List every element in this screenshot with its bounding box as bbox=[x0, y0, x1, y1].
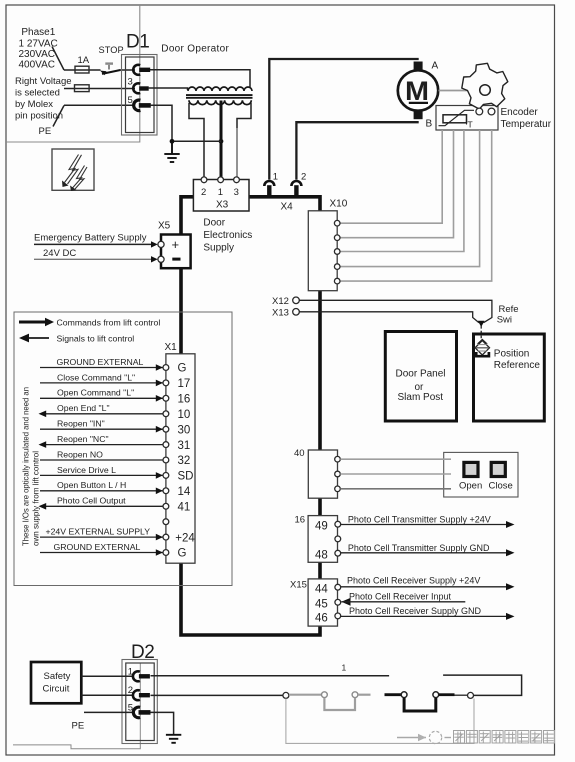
svg-text:by Molex: by Molex bbox=[15, 99, 53, 110]
connector X10 bbox=[308, 199, 347, 291]
svg-text:48: 48 bbox=[315, 549, 328, 561]
svg-text:44: 44 bbox=[315, 583, 328, 595]
lightning hazard box bbox=[52, 149, 94, 191]
wire phase input to fuse bbox=[64, 69, 101, 71]
safety chain enclosure (gray) bbox=[286, 699, 474, 744]
watermark sun logo bbox=[429, 731, 441, 743]
svg-text:Emergency Battery Supply: Emergency Battery Supply bbox=[34, 232, 147, 243]
wire Emergency Battery Supply to X5 bbox=[34, 243, 153, 245]
junction dot PE bbox=[170, 139, 175, 144]
svg-text:Open End "L": Open End "L" bbox=[57, 403, 110, 413]
svg-text:is selected: is selected bbox=[15, 88, 60, 99]
wire X1 pin G bbox=[40, 552, 163, 554]
svg-text:SD: SD bbox=[178, 471, 194, 483]
svg-text:PE: PE bbox=[72, 720, 85, 731]
wire X1 pin 30 bbox=[40, 428, 163, 430]
svg-text:16: 16 bbox=[295, 515, 306, 526]
wire safety circuit to D2 pin1 bbox=[81, 675, 134, 677]
legend / isolation box bbox=[14, 312, 232, 586]
main supply bus (thick) bbox=[179, 195, 322, 637]
wire 40 pin3 to buttons bbox=[340, 488, 451, 490]
wire X1 pin 31 bbox=[40, 444, 163, 446]
motor terminal B bbox=[414, 111, 423, 119]
svg-text:Open Command "L": Open Command "L" bbox=[57, 388, 134, 398]
svg-text:Swi: Swi bbox=[497, 315, 512, 326]
connector X6 (49/48) bbox=[295, 515, 341, 563]
svg-text:3: 3 bbox=[128, 77, 133, 88]
svg-text:G: G bbox=[178, 363, 187, 375]
wire chain return loop bbox=[443, 675, 521, 695]
svg-text:Reference: Reference bbox=[494, 360, 541, 371]
watermark text bbox=[454, 731, 465, 744]
svg-text:Electronics: Electronics bbox=[203, 230, 252, 241]
wire D1 pin1 to transformer primary right bbox=[150, 70, 250, 87]
svg-text:Photo Cell Receiver Supply +24: Photo Cell Receiver Supply +24V bbox=[347, 575, 480, 585]
svg-text:B: B bbox=[426, 119, 433, 130]
svg-text:1: 1 bbox=[342, 663, 347, 673]
wire D1 pin3 to transformer primary left bbox=[148, 88, 188, 90]
wire D2 pin1 to safety chain top bbox=[151, 675, 390, 677]
svg-text:T: T bbox=[468, 120, 473, 130]
encoder temperature box bbox=[436, 106, 498, 131]
svg-text:X5: X5 bbox=[158, 221, 171, 232]
svg-text:Photo Cell Output: Photo Cell Output bbox=[57, 496, 126, 506]
svg-text:Photo Cell Receiver Input: Photo Cell Receiver Input bbox=[349, 592, 452, 602]
wire encoder/temp 3 to X10 bbox=[340, 130, 464, 252]
svg-text:1A: 1A bbox=[78, 55, 90, 66]
ground symbol GND2 bbox=[166, 735, 181, 743]
svg-text:X10: X10 bbox=[330, 199, 348, 210]
wire encoder/temp 1 to X10 bbox=[340, 130, 442, 223]
svg-text:+24: +24 bbox=[175, 532, 195, 544]
wire safety circuit to D2 pin2 bbox=[81, 694, 134, 696]
fuse F2 bbox=[75, 85, 90, 92]
svg-text:5: 5 bbox=[128, 95, 133, 106]
svg-text:X1: X1 bbox=[165, 342, 178, 353]
region boundary line top-left bbox=[6, 5, 140, 142]
svg-text:G: G bbox=[178, 548, 187, 560]
Open/Close button box bbox=[444, 452, 518, 497]
X4 pin 2 contact bbox=[291, 181, 301, 186]
svg-text:Reopen "IN": Reopen "IN" bbox=[57, 419, 105, 429]
wire voltage select to D1 pin3 bbox=[64, 88, 135, 90]
svg-text:Photo Cell Transmitter Supply: Photo Cell Transmitter Supply +24V bbox=[348, 515, 491, 525]
encoder pin circles bbox=[476, 108, 483, 115]
svg-text:14: 14 bbox=[178, 486, 191, 498]
motor terminal A bbox=[414, 62, 423, 70]
black stub left bbox=[385, 693, 402, 696]
svg-text:Door: Door bbox=[203, 218, 225, 229]
svg-text:Photo Cell Receiver Supply GND: Photo Cell Receiver Supply GND bbox=[349, 606, 482, 616]
legend signals arrow bbox=[19, 334, 29, 343]
svg-text:X15: X15 bbox=[290, 580, 307, 591]
svg-text:49: 49 bbox=[315, 521, 328, 533]
wire secondary left tap to X3 pin2 bbox=[189, 103, 204, 177]
Door Panel box bbox=[385, 332, 456, 422]
wire encoder/temp 2 to X10 bbox=[340, 130, 454, 238]
label Right Voltage note bbox=[15, 76, 72, 122]
gray stub left bbox=[289, 694, 321, 696]
svg-text:Open: Open bbox=[459, 481, 482, 492]
svg-text:2: 2 bbox=[301, 172, 306, 183]
X4 pin 1 contact bbox=[264, 181, 274, 186]
wire 40 pin2 to buttons bbox=[340, 473, 451, 475]
svg-text:3: 3 bbox=[234, 187, 239, 198]
button Open bbox=[464, 462, 478, 476]
wire switch to D1 pin1 bbox=[120, 69, 136, 71]
Safety Circuit box bbox=[31, 662, 81, 703]
svg-text:Temperatur: Temperatur bbox=[501, 119, 552, 130]
transformer T1 core bbox=[186, 94, 253, 96]
connector X3 bbox=[193, 177, 249, 211]
watermark arrow bbox=[397, 737, 426, 739]
motor shaft to encoder bbox=[439, 90, 481, 92]
Position Reference box bbox=[474, 334, 545, 421]
wire motor A to X4 pin1 bbox=[269, 59, 418, 180]
button Close bbox=[491, 462, 505, 476]
black bridge contact (safety contact) bbox=[401, 692, 407, 698]
svg-text:10: 10 bbox=[178, 409, 191, 421]
motor M bbox=[398, 70, 438, 110]
connector D1 bbox=[122, 32, 158, 136]
svg-text:Close: Close bbox=[489, 481, 513, 492]
svg-text:Reopen "NC": Reopen "NC" bbox=[57, 434, 109, 444]
svg-text:Open Button L / H: Open Button L / H bbox=[57, 480, 126, 490]
position sensor symbol bbox=[475, 339, 489, 356]
svg-text:Position: Position bbox=[494, 349, 530, 360]
wire encoder 4 to X10 bbox=[340, 130, 480, 267]
svg-text:Commands from lift control: Commands from lift control bbox=[57, 318, 161, 328]
wire secondary right tap to X3 pin3 bbox=[237, 103, 251, 128]
wire D2 pin2 to safety chain bbox=[151, 694, 284, 696]
svg-text:45: 45 bbox=[315, 598, 328, 610]
wire X1 pin 41 bbox=[40, 505, 163, 507]
svg-text:Photo Cell Transmitter Supply: Photo Cell Transmitter Supply GND bbox=[348, 543, 490, 553]
svg-text:M: M bbox=[405, 76, 429, 106]
svg-text:Supply: Supply bbox=[203, 243, 234, 254]
wire D1 pin5 to PE ground junction bbox=[150, 105, 172, 141]
label Phase1 voltages bbox=[19, 27, 58, 71]
svg-text:400VAC: 400VAC bbox=[19, 60, 56, 71]
svg-text:Slam Post: Slam Post bbox=[398, 392, 444, 403]
svg-text:Signals to lift control: Signals to lift control bbox=[57, 334, 135, 344]
svg-text:46: 46 bbox=[315, 612, 328, 624]
svg-text:A: A bbox=[432, 61, 439, 72]
fuse F1 1A bbox=[75, 66, 89, 73]
wire motor B to X4 pin2 bbox=[296, 122, 418, 179]
gray stub right bbox=[358, 694, 371, 696]
encoder shaft hole bbox=[480, 85, 491, 96]
gray bridge contact (door contact) bbox=[322, 692, 328, 698]
link to right terminal bbox=[455, 694, 468, 696]
connector X15 bbox=[290, 579, 341, 626]
svg-text:31: 31 bbox=[178, 440, 191, 452]
wire X1 pin SD bbox=[40, 474, 163, 476]
wire encoder 5 to X10 bbox=[340, 130, 492, 281]
svg-text:GROUND EXTERNAL: GROUND EXTERNAL bbox=[57, 357, 144, 367]
svg-text:Safety: Safety bbox=[44, 671, 71, 682]
svg-text:Phase1: Phase1 bbox=[21, 27, 55, 38]
svg-text:41: 41 bbox=[178, 502, 191, 514]
transformer T1 primary winding bbox=[188, 87, 252, 91]
svg-text:2: 2 bbox=[201, 187, 206, 198]
svg-text:PE: PE bbox=[39, 126, 52, 137]
svg-text:1: 1 bbox=[273, 172, 278, 183]
wire X1 pin 17 bbox=[40, 382, 163, 384]
svg-text:Refe: Refe bbox=[499, 304, 519, 315]
svg-text:Door Operator: Door Operator bbox=[161, 44, 229, 55]
ground symbol GND1 bbox=[164, 141, 179, 162]
svg-text:X13: X13 bbox=[272, 308, 289, 319]
connector X1 box bbox=[166, 354, 195, 563]
safety chain terminal right bbox=[468, 692, 474, 698]
encoder gear bbox=[462, 63, 508, 109]
svg-text:own supply from lift control: own supply from lift control bbox=[30, 451, 40, 546]
svg-text:1: 1 bbox=[218, 187, 223, 198]
wire D2 pin5 to ground bbox=[150, 712, 174, 734]
svg-text:X12: X12 bbox=[272, 296, 289, 307]
D1 pin 1 contact bbox=[133, 65, 140, 75]
svg-text:GROUND EXTERNAL: GROUND EXTERNAL bbox=[54, 542, 141, 552]
svg-text:Right Voltage: Right Voltage bbox=[15, 76, 72, 87]
wire PE to D2 pin5 bbox=[84, 711, 134, 713]
leader line from voltage label bbox=[52, 47, 64, 71]
svg-text:+24V EXTERNAL SUPPLY: +24V EXTERNAL SUPPLY bbox=[46, 527, 151, 537]
legend commands arrow bbox=[19, 321, 46, 324]
svg-text:Close Command "L": Close Command "L" bbox=[57, 372, 135, 382]
svg-text:STOP: STOP bbox=[99, 45, 124, 55]
wire secondary center tap to X3 pin1 (thick) bbox=[220, 101, 223, 178]
svg-text:24V DC: 24V DC bbox=[43, 248, 76, 259]
svg-text:230VAC: 230VAC bbox=[19, 49, 56, 60]
svg-text:Door Panel: Door Panel bbox=[396, 369, 446, 380]
junction dot center tap PE bbox=[219, 139, 224, 144]
svg-text:Circuit: Circuit bbox=[43, 684, 70, 695]
svg-text:+: + bbox=[172, 237, 180, 252]
connector 40 bbox=[294, 448, 340, 498]
label Door Electronics Supply bbox=[203, 218, 252, 254]
svg-text:X3: X3 bbox=[216, 200, 229, 211]
reference switch arrow and dashed link bbox=[478, 321, 485, 327]
wire X1 pin 32 bbox=[40, 459, 163, 461]
svg-text:X4: X4 bbox=[281, 202, 294, 213]
wire X1 pin 10 bbox=[40, 413, 163, 415]
wire X12 to reference switch bbox=[299, 300, 492, 322]
connector X5 bbox=[158, 221, 191, 269]
safety chain terminal left bbox=[283, 692, 289, 698]
transformer T1 secondary winding bbox=[189, 100, 251, 104]
region boundary line bottom bbox=[13, 663, 140, 749]
svg-text:17: 17 bbox=[178, 378, 191, 390]
connector D2 bbox=[122, 660, 157, 744]
svg-text:40: 40 bbox=[294, 448, 305, 459]
wire 24V DC to X5 bbox=[34, 258, 153, 260]
svg-text:These I/Os are optically insul: These I/Os are optically insulated and n… bbox=[21, 387, 31, 546]
svg-text:32: 32 bbox=[178, 455, 191, 467]
wire 40 pin1 to buttons bbox=[340, 458, 451, 460]
svg-text:30: 30 bbox=[178, 424, 191, 436]
wire X1 pin 16 bbox=[40, 397, 163, 399]
wire X13 to reference switch bbox=[299, 312, 479, 323]
wire X1 pin G bbox=[40, 367, 163, 369]
svg-text:D1: D1 bbox=[126, 32, 149, 53]
thermistor RT1 bbox=[439, 110, 475, 129]
wire PE junction link bbox=[172, 140, 221, 142]
svg-text:Reopen NO: Reopen NO bbox=[57, 449, 103, 459]
svg-text:Encoder: Encoder bbox=[501, 107, 539, 118]
wire X1 pin +24 bbox=[40, 536, 163, 538]
wire PE to D1 pin5 bbox=[64, 104, 135, 106]
wire X1 pin 14 bbox=[40, 490, 163, 492]
leader line PE bbox=[53, 106, 64, 127]
black stub right bbox=[439, 693, 455, 696]
X1 spare pin bbox=[163, 519, 169, 525]
svg-text:16: 16 bbox=[178, 394, 191, 406]
svg-text:Service Drive L: Service Drive L bbox=[57, 465, 116, 475]
